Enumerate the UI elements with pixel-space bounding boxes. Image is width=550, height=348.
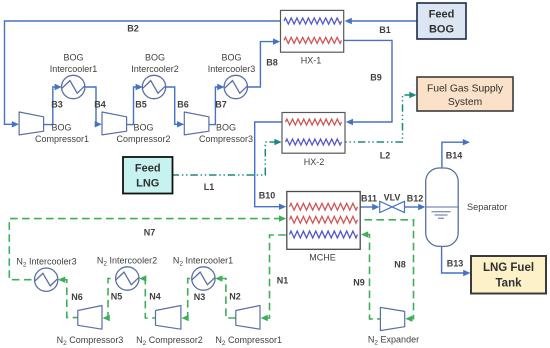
svg-text:Feed: Feed xyxy=(135,163,161,175)
svg-text:N6: N6 xyxy=(71,292,83,302)
svg-text:BOG: BOG xyxy=(145,53,165,63)
svg-text:LNG: LNG xyxy=(136,178,159,190)
svg-text:Intercooler3: Intercooler3 xyxy=(208,64,256,74)
svg-text:VLV: VLV xyxy=(384,193,401,203)
svg-text:Compressor1: Compressor1 xyxy=(35,134,89,144)
svg-text:System: System xyxy=(448,97,482,108)
svg-text:L2: L2 xyxy=(380,151,391,161)
svg-text:B2: B2 xyxy=(127,24,139,34)
svg-text:B8: B8 xyxy=(266,58,278,68)
svg-text:Tank: Tank xyxy=(496,278,523,290)
svg-text:BOG: BOG xyxy=(221,53,241,63)
svg-text:N4: N4 xyxy=(149,292,161,302)
svg-text:B9: B9 xyxy=(370,73,382,83)
svg-text:B13: B13 xyxy=(447,259,464,269)
svg-text:HX-1: HX-1 xyxy=(301,56,322,66)
svg-text:N5: N5 xyxy=(111,292,123,302)
svg-text:LNG Fuel: LNG Fuel xyxy=(483,262,534,274)
svg-text:Compressor3: Compressor3 xyxy=(199,134,253,144)
svg-text:B11: B11 xyxy=(361,194,377,204)
svg-text:Fuel Gas Supply: Fuel Gas Supply xyxy=(427,84,504,95)
svg-text:Separator: Separator xyxy=(467,202,507,212)
svg-text:BOG: BOG xyxy=(133,123,153,133)
svg-text:B12: B12 xyxy=(407,194,424,204)
svg-text:Compressor2: Compressor2 xyxy=(116,134,170,144)
svg-text:B10: B10 xyxy=(259,191,276,201)
svg-text:BOG: BOG xyxy=(429,24,454,36)
svg-text:B7: B7 xyxy=(215,100,227,110)
svg-text:B3: B3 xyxy=(51,100,63,110)
svg-text:HX-2: HX-2 xyxy=(304,157,325,167)
svg-text:Feed: Feed xyxy=(429,9,455,21)
svg-text:B14: B14 xyxy=(446,151,463,161)
svg-text:B4: B4 xyxy=(94,100,106,110)
svg-text:L1: L1 xyxy=(204,182,215,192)
svg-text:BOG: BOG xyxy=(216,123,236,133)
svg-text:B1: B1 xyxy=(379,25,391,35)
svg-text:N7: N7 xyxy=(144,228,156,238)
svg-text:N9: N9 xyxy=(353,278,365,288)
svg-text:B5: B5 xyxy=(135,100,147,110)
svg-text:Intercooler1: Intercooler1 xyxy=(50,64,98,74)
svg-text:MCHE: MCHE xyxy=(309,253,336,263)
svg-text:N8: N8 xyxy=(394,260,406,270)
svg-text:BOG: BOG xyxy=(51,123,71,133)
svg-text:BOG: BOG xyxy=(63,53,83,63)
svg-text:B6: B6 xyxy=(177,100,189,110)
svg-text:N2: N2 xyxy=(229,292,241,302)
svg-text:N1: N1 xyxy=(277,276,289,286)
svg-text:N3: N3 xyxy=(194,292,206,302)
svg-text:Intercooler2: Intercooler2 xyxy=(131,64,179,74)
